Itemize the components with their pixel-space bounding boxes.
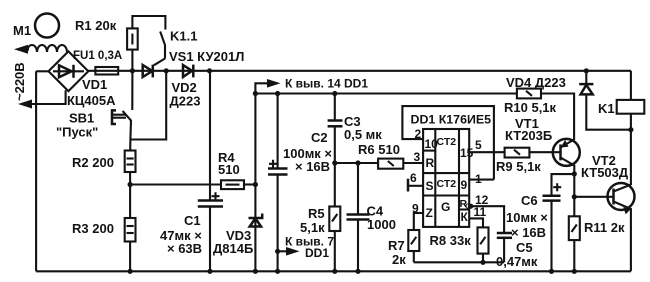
rectifier bridge VD1 diamond bbox=[49, 51, 89, 91]
wire R2 to R3 bbox=[129, 172, 131, 218]
wire bridge left vertex to left vertical bbox=[36, 70, 49, 72]
wire main top rail bbox=[88, 70, 631, 72]
node junction VD2 out bbox=[207, 68, 212, 73]
svg-text:C5: C5 bbox=[516, 240, 533, 255]
svg-text:3: 3 bbox=[414, 150, 421, 164]
capacitor C5 bbox=[497, 232, 512, 235]
node junction R8-common bbox=[480, 260, 485, 265]
svg-text:1: 1 bbox=[475, 172, 482, 186]
svg-text:× 63В: × 63В bbox=[167, 241, 202, 256]
wire 220V line B from bridge bottom vertex bbox=[24, 90, 66, 104]
svg-text:R7: R7 bbox=[388, 238, 405, 253]
svg-text:C6: C6 bbox=[521, 193, 538, 208]
wire C2 vertical bbox=[277, 94, 279, 169]
wire C6 bottom bbox=[550, 201, 552, 272]
diode VD2 bbox=[183, 65, 192, 77]
wire R1 bottom bbox=[131, 50, 133, 71]
svg-text:C1: C1 bbox=[184, 213, 201, 228]
resistor R6 bbox=[378, 159, 403, 169]
node junction 9V net bbox=[253, 91, 258, 96]
svg-text:K1.1: K1.1 bbox=[170, 29, 197, 44]
svg-text:9: 9 bbox=[412, 202, 419, 216]
wire right rail top bbox=[630, 71, 632, 100]
resistor R3 bbox=[125, 218, 136, 242]
wire VT2 base bbox=[574, 196, 613, 198]
wire bottom rail bbox=[36, 270, 631, 272]
svg-text:R10 5,1к: R10 5,1к bbox=[504, 100, 557, 115]
svg-text:VS1 КУ201Л: VS1 КУ201Л bbox=[169, 49, 244, 64]
svg-text:Д223: Д223 bbox=[170, 94, 201, 109]
svg-text:2: 2 bbox=[415, 127, 422, 141]
svg-text:К: К bbox=[461, 210, 469, 224]
wire VT1 collector down bbox=[573, 174, 575, 216]
fuse FU1 bbox=[95, 67, 118, 75]
svg-text:R3 200: R3 200 bbox=[72, 221, 114, 236]
svg-text:DD1 К176ИЕ5: DD1 К176ИЕ5 bbox=[411, 113, 492, 127]
svg-text:R9 5,1к: R9 5,1к bbox=[496, 159, 541, 174]
inductor motor winding bbox=[27, 45, 67, 52]
wire C4 vertical bbox=[357, 163, 359, 215]
svg-text:0,47мк: 0,47мк bbox=[496, 254, 538, 269]
svg-text:6: 6 bbox=[410, 171, 417, 185]
svg-text:1000: 1000 bbox=[367, 217, 396, 232]
resistor R2 bbox=[125, 151, 136, 173]
node junction C2 bottom bbox=[275, 269, 280, 274]
node junction VS1 cathode bbox=[164, 68, 169, 73]
diode VD4 bbox=[584, 68, 589, 73]
node junction C1-bottom bbox=[207, 269, 212, 274]
transistor VT1 bbox=[553, 139, 580, 166]
svg-text:СТ2: СТ2 bbox=[437, 136, 457, 148]
resistor R8 bbox=[478, 227, 489, 253]
wire R6 line bbox=[335, 162, 378, 164]
svg-text:КТ203Б: КТ203Б bbox=[505, 128, 552, 143]
wire pin 11 to R8 bbox=[469, 218, 483, 227]
op IC DD1 K176IE5 body bbox=[423, 129, 469, 227]
wire pin 2 feedback loop bbox=[402, 106, 494, 180]
wire R9 to VT1 base bbox=[529, 151, 560, 153]
node junction R2-R4line bbox=[128, 182, 133, 187]
capacitor C3 bbox=[328, 119, 343, 122]
node junction R5-bottom bbox=[332, 269, 337, 274]
wire 220V line A bbox=[18, 48, 29, 50]
resistor R11 bbox=[569, 216, 580, 240]
svg-text:R8 33к: R8 33к bbox=[430, 233, 472, 248]
wire R10 right to VT1 emitter bbox=[541, 94, 574, 141]
wire pin 9 to R7 bbox=[414, 213, 423, 230]
arrow 220V line A bbox=[14, 45, 28, 54]
wire pin 6 stub bbox=[408, 185, 423, 187]
wire pin 12 to C5 bbox=[469, 206, 504, 233]
node junction C3 top bbox=[332, 91, 337, 96]
wire RC common line bbox=[414, 261, 504, 263]
node junction R11-bottom bbox=[572, 269, 577, 274]
diode inside bridge VD1 bbox=[53, 70, 84, 72]
node junction C6-bottom bbox=[549, 269, 554, 274]
relay K1 coil bbox=[617, 100, 645, 114]
svg-text:DD1: DD1 bbox=[305, 246, 329, 260]
svg-text:2к: 2к bbox=[392, 252, 406, 267]
wire VD3 vertical with K vyv 14 arm bbox=[255, 83, 268, 271]
capacitor C6 bbox=[543, 194, 561, 197]
node junction VT2 base tap bbox=[572, 194, 577, 199]
node junction C4 bottom bbox=[355, 269, 360, 274]
node junction C2 pin7 tap bbox=[275, 249, 280, 254]
resistor R4 bbox=[221, 180, 244, 189]
svg-text:VD1: VD1 bbox=[82, 77, 107, 92]
svg-text:10мк ×: 10мк × bbox=[506, 210, 548, 225]
wire R8 bottom bbox=[482, 254, 484, 263]
svg-text:SB1: SB1 bbox=[69, 111, 94, 126]
wire SB1 to R2 bbox=[129, 140, 131, 151]
thyristor VS1 bbox=[143, 65, 153, 77]
svg-text:× 16В: × 16В bbox=[511, 225, 546, 240]
arrow 220V line B bbox=[18, 100, 32, 109]
wire C5 bottom bbox=[503, 238, 505, 262]
capacitor C4 bbox=[347, 213, 370, 216]
svg-text:S: S bbox=[426, 179, 434, 193]
svg-text:Z: Z bbox=[426, 206, 433, 220]
transistor VT2 bbox=[608, 183, 635, 210]
resistor R10 bbox=[517, 89, 541, 99]
wire R1 top loop bbox=[132, 16, 165, 30]
svg-text:FU1 0,3A: FU1 0,3A bbox=[73, 50, 122, 62]
node junction C4 top bbox=[355, 160, 360, 165]
wire 9V rail bbox=[255, 92, 517, 94]
node junction VD3-bottom bbox=[253, 269, 258, 274]
svg-text:КЦ405А: КЦ405А bbox=[67, 93, 116, 108]
wire C6 top link bbox=[552, 174, 575, 196]
node junction R1-rail bbox=[130, 68, 135, 73]
wire SB1 right branch bbox=[130, 71, 166, 140]
capacitor C1 bbox=[198, 199, 223, 202]
svg-text:11: 11 bbox=[474, 205, 487, 219]
svg-text:× 16В: × 16В bbox=[295, 159, 330, 174]
svg-text:9: 9 bbox=[461, 178, 468, 192]
svg-text:Д814Б: Д814Б bbox=[213, 241, 253, 256]
svg-text:R6 510: R6 510 bbox=[358, 142, 400, 157]
svg-text:5: 5 bbox=[475, 138, 482, 152]
resistor R5 bbox=[329, 207, 340, 232]
svg-text:5,1к: 5,1к bbox=[300, 220, 325, 235]
svg-text:К выв. 14 DD1: К выв. 14 DD1 bbox=[285, 77, 368, 91]
wire R3 bottom bbox=[129, 242, 131, 272]
pushbutton SB1 bbox=[112, 110, 116, 124]
wire R7 bottom to common bbox=[413, 251, 415, 262]
resistor R9 bbox=[505, 148, 530, 158]
wire pin 1 bbox=[469, 179, 494, 181]
svg-text:0,5 мк: 0,5 мк bbox=[344, 127, 382, 142]
svg-text:~220В: ~220В bbox=[12, 62, 27, 101]
wire R4 line bbox=[130, 183, 220, 185]
node junction C3-R5-R6 bbox=[332, 160, 337, 165]
wire R5 branch bbox=[334, 163, 336, 207]
wire C1 branch vertical bbox=[209, 71, 211, 201]
motor M1 bbox=[35, 14, 59, 38]
capacitor C2 bbox=[268, 167, 288, 170]
svg-text:R: R bbox=[426, 156, 435, 170]
arrow to pin 14 DD1 bbox=[267, 79, 281, 88]
svg-text:M1: M1 bbox=[13, 23, 31, 38]
svg-text:R5: R5 bbox=[308, 206, 325, 221]
wire C3 vertical bbox=[334, 94, 336, 121]
svg-text:C2: C2 bbox=[311, 130, 328, 145]
svg-text:R2 200: R2 200 bbox=[72, 155, 114, 170]
svg-text:510: 510 bbox=[218, 162, 240, 177]
svg-text:СТ2: СТ2 bbox=[437, 178, 457, 190]
wire SB1 upper bbox=[131, 71, 133, 110]
svg-text:K1: K1 bbox=[598, 101, 615, 116]
wire R5 bottom bbox=[334, 231, 336, 271]
node junction R3-bottom rail bbox=[128, 269, 133, 274]
node junction VT1 collector bbox=[572, 171, 577, 176]
svg-text:R11 2к: R11 2к bbox=[584, 220, 625, 235]
resistor R7 bbox=[408, 230, 419, 251]
node junction C2 top bbox=[275, 91, 280, 96]
resistor R1 bbox=[127, 28, 138, 49]
svg-text:"Пуск": "Пуск" bbox=[56, 125, 98, 140]
wire left vertical (minus bus down) bbox=[35, 71, 37, 271]
svg-text:G: G bbox=[441, 200, 450, 214]
svg-text:КТ503Д: КТ503Д bbox=[581, 165, 629, 180]
wire pin 5 bbox=[469, 151, 504, 153]
node junction VD4-K1 bbox=[628, 127, 633, 132]
svg-text:R1 20к: R1 20к bbox=[75, 18, 117, 33]
svg-text:VD4 Д223: VD4 Д223 bbox=[506, 75, 566, 90]
zener diode VD3 bbox=[250, 218, 261, 226]
wire gate lead VS1 bbox=[154, 59, 165, 66]
node junction R4-VD3 bbox=[253, 182, 258, 187]
wire arrow to pin 7 bbox=[278, 250, 288, 252]
relay contact K1.1 bbox=[160, 32, 165, 59]
wire R11 bottom bbox=[573, 240, 575, 271]
